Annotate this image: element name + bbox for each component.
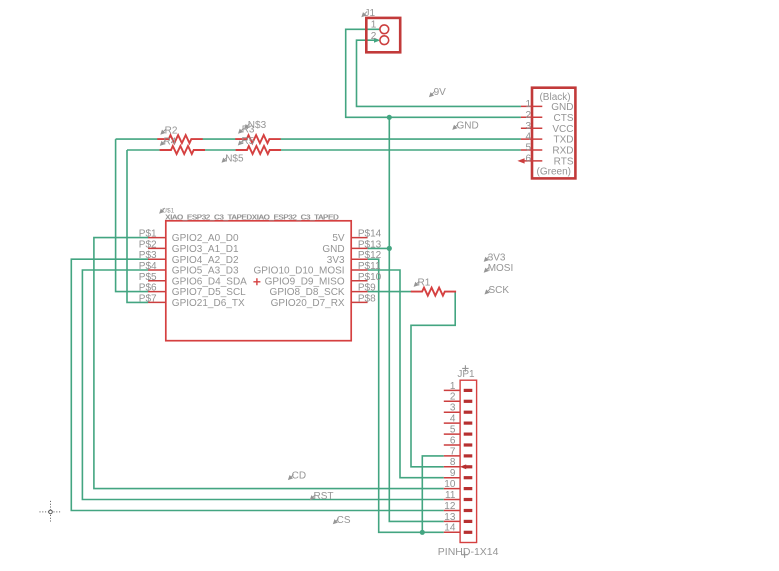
IC pin P$8 stub [351, 301, 367, 303]
svg-text:7: 7 [450, 446, 456, 457]
svg-text:GND: GND [551, 102, 573, 113]
IC U$1 XIAO ESP32 C3 box [166, 221, 351, 341]
svg-text:RXD: RXD [552, 146, 573, 157]
junction at pin14 row [420, 530, 425, 535]
net label SCK [485, 289, 490, 294]
svg-text:P$7: P$7 [139, 293, 157, 304]
UART pin 4 stub [521, 138, 542, 140]
svg-text:P$10: P$10 [358, 272, 382, 283]
svg-text:TXD: TXD [554, 135, 574, 146]
JP1 pin 10 pad [464, 487, 473, 490]
svg-text:RST: RST [314, 491, 334, 502]
svg-text:PINHD-1X14: PINHD-1X14 [438, 546, 499, 558]
UART pin 3 stub [521, 127, 542, 129]
svg-text:GND: GND [457, 120, 479, 131]
svg-text:R2: R2 [165, 125, 178, 136]
label J1 [362, 12, 367, 17]
IC pin P$11 stub [351, 269, 367, 271]
svg-text:GPIO2_A0_D0: GPIO2_A0_D0 [172, 233, 239, 244]
wire IC P$13 GND stub to vertical [368, 247, 390, 249]
svg-text:P$3: P$3 [139, 250, 157, 261]
svg-text:3V3: 3V3 [488, 252, 506, 263]
svg-text:N$5: N$5 [225, 154, 244, 165]
svg-text:P$4: P$4 [139, 261, 157, 272]
wire JP1 pin7 to pin14 row [422, 456, 444, 532]
J1 pin 1 circle [380, 25, 389, 34]
IC pin P$4 stub [148, 269, 166, 271]
svg-text:GPIO10_D10_MOSI: GPIO10_D10_MOSI [253, 266, 344, 277]
JP1 pin 7 stub [444, 455, 460, 457]
wire GND net vertical from CTS junction down to JP1 pin13 [389, 117, 444, 521]
svg-text:1: 1 [371, 20, 377, 31]
svg-text:N$3: N$3 [248, 120, 267, 131]
svg-text:P$8: P$8 [358, 293, 376, 304]
svg-text:GPIO20_D7_RX: GPIO20_D7_RX [271, 298, 345, 309]
IC pin P$13 stub [351, 247, 367, 249]
svg-text:13: 13 [444, 512, 456, 523]
JP1 pin 9 stub [444, 477, 460, 479]
svg-text:CTS: CTS [554, 113, 574, 124]
resistor R5 (label hidden) [239, 140, 244, 145]
svg-text:P$12: P$12 [358, 250, 382, 261]
svg-text:6: 6 [525, 154, 531, 165]
svg-text:GPIO8_D8_SCK: GPIO8_D8_SCK [270, 287, 345, 298]
svg-text:8: 8 [450, 457, 456, 468]
svg-text:R1: R1 [418, 278, 431, 289]
sheet origin crosshair [40, 501, 62, 523]
IC pin P$2 stub [148, 247, 166, 249]
IC pin P$14 stub [351, 237, 367, 239]
svg-text:4: 4 [450, 414, 456, 425]
JP1 pin 8 stub [444, 466, 460, 468]
JP1 pin 12 pad [464, 509, 473, 512]
svg-text:3V3: 3V3 [327, 255, 345, 266]
svg-text:10: 10 [444, 479, 456, 490]
svg-text:XIAO_ESP32_C3_TAPEDXIAO_ESP32_: XIAO_ESP32_C3_TAPEDXIAO_ESP32_C3_TAPED [166, 212, 340, 221]
svg-text:SCK: SCK [489, 285, 510, 296]
JP1 pin 3 stub [444, 411, 460, 413]
IC pin P$3 stub [148, 258, 166, 260]
junction on CTS row [387, 115, 392, 120]
wire vertical bottom resistor row to IC P$7 [127, 150, 148, 302]
svg-text:3: 3 [450, 403, 456, 414]
UART pin 1 stub [521, 105, 542, 107]
wire J1 pin1 to CTS row [346, 29, 521, 117]
JP1 pin 1 pad [464, 389, 473, 392]
JP1 pin 14 pad [464, 531, 473, 534]
svg-text:11: 11 [445, 490, 456, 501]
JP1 pin 4 stub [444, 422, 460, 424]
wire TXD row through R2 R3 [116, 138, 158, 140]
resistor R4 (label hidden) [161, 140, 166, 145]
net label RST [310, 495, 315, 500]
net label 3V3 [484, 256, 489, 261]
wire IC P$12 3V3 to JP1 pin14 [368, 259, 444, 532]
wire IC P$11 MOSI to JP1 pin9 [368, 270, 444, 478]
svg-text:3: 3 [525, 121, 531, 132]
IC pin P$12 stub [351, 258, 367, 260]
JP1 pin 11 stub [444, 499, 460, 501]
svg-text:(Black): (Black) [539, 92, 570, 103]
svg-text:9V: 9V [434, 87, 447, 98]
JP1 pin 11 pad [464, 498, 473, 501]
net label CS [334, 519, 339, 524]
JP1 pin 10 stub [444, 488, 460, 490]
J1 pin 2 circle [380, 36, 389, 45]
svg-text:1: 1 [525, 99, 531, 110]
label R3 [239, 128, 244, 133]
svg-text:2: 2 [450, 392, 456, 403]
wire IC P$4 to JP1 pin11 (RST net) [82, 270, 443, 500]
label PINHD-1X14 [461, 552, 467, 558]
svg-text:GPIO4_A2_D2: GPIO4_A2_D2 [172, 255, 239, 266]
svg-text:(Green): (Green) [537, 166, 571, 177]
svg-text:5: 5 [525, 143, 531, 154]
JP1 pin 5 stub [444, 433, 460, 435]
svg-text:P$13: P$13 [358, 239, 382, 250]
svg-text:P$2: P$2 [139, 239, 157, 250]
JP1 pin 4 pad [464, 422, 473, 425]
svg-text:GPIO5_A3_D3: GPIO5_A3_D3 [172, 266, 239, 277]
wire IC P$3 to JP1 pin12 (CS net) [71, 259, 444, 510]
svg-text:GND: GND [322, 244, 344, 255]
svg-text:P$9: P$9 [358, 283, 376, 294]
JP1 pin 7 pad [464, 454, 473, 457]
pin header JP1 box [460, 380, 477, 542]
IC pin P$7 stub [148, 301, 166, 303]
svg-text:2: 2 [371, 31, 377, 42]
svg-text:6: 6 [450, 435, 456, 446]
JP1 pin 3 pad [464, 411, 473, 414]
JP1 pin 5 pad [464, 433, 473, 436]
JP1 pin 6 stub [444, 444, 460, 446]
JP1 pin 2 pad [464, 400, 473, 403]
label JP1 [462, 365, 468, 371]
JP1 pin 6 pad [464, 443, 473, 446]
UART RTS arrowhead [517, 158, 524, 163]
IC pin P$6 stub [148, 291, 166, 293]
wire vertical resistor row to IC P$6 [116, 139, 148, 292]
JP1 pin 14 stub [444, 531, 460, 533]
svg-text:GPIO9_D9_MISO: GPIO9_D9_MISO [265, 276, 345, 287]
svg-text:P$1: P$1 [139, 229, 157, 240]
svg-text:MOSI: MOSI [488, 263, 514, 274]
JP1 pin 9 pad [464, 476, 473, 479]
IC pin P$5 stub [148, 280, 166, 282]
net label MOSI [484, 267, 489, 272]
JP1 pin 8 pad [464, 465, 473, 468]
svg-text:P$11: P$11 [358, 261, 381, 272]
label U$1 [160, 208, 165, 213]
svg-text:CS: CS [337, 515, 351, 526]
svg-text:JP1: JP1 [457, 369, 475, 380]
connector X1 (UART) box [532, 88, 575, 179]
svg-text:J1: J1 [365, 8, 376, 19]
IC pin P$9 stub [351, 291, 367, 293]
svg-text:5V: 5V [332, 233, 345, 244]
JP1 pin 1 stub [444, 389, 460, 391]
net label GND [453, 124, 458, 129]
wire arrowhead at J1 pin2 [374, 38, 380, 43]
resistor R1 [411, 288, 456, 296]
resistor R3 [235, 135, 280, 143]
UART pin 6 stub [521, 160, 542, 162]
svg-text:P$14: P$14 [358, 229, 382, 240]
svg-text:P$6: P$6 [139, 283, 157, 294]
label R2 [161, 129, 166, 134]
resistor R2 [157, 135, 202, 143]
wire RXD row through R4 R5 [127, 149, 160, 151]
svg-text:GPIO21_D6_TX: GPIO21_D6_TX [172, 298, 245, 309]
UART pin 5 stub [521, 149, 542, 151]
wire IC P$9 SCK to R1 [368, 291, 412, 293]
UART pin 2 stub [521, 116, 542, 118]
wire R1 to JP1 pin8 [411, 292, 455, 467]
svg-text:GPIO3_A1_D1: GPIO3_A1_D1 [172, 244, 239, 255]
svg-text:P$5: P$5 [139, 272, 157, 283]
svg-text:12: 12 [444, 501, 456, 512]
label R1 [414, 281, 419, 286]
net label 9V [430, 92, 435, 97]
svg-text:VCC: VCC [552, 124, 573, 135]
svg-text:GPIO7_D5_SCL: GPIO7_D5_SCL [172, 287, 246, 298]
label N$5 [222, 157, 227, 162]
JP1 pin 13 pad [464, 520, 473, 523]
svg-text:4: 4 [525, 132, 531, 143]
svg-text:9: 9 [450, 468, 456, 479]
net label CD [289, 474, 294, 479]
svg-text:1: 1 [450, 381, 456, 392]
svg-text:CD: CD [292, 470, 306, 481]
IC origin cross [253, 278, 260, 285]
svg-text:GPIO6_D4_SDA: GPIO6_D4_SDA [172, 276, 247, 287]
svg-text:5: 5 [450, 425, 456, 436]
IC pin P$1 stub [148, 237, 166, 239]
junction at IC GND row [387, 246, 392, 251]
IC pin P$10 stub [351, 280, 367, 282]
JP1 pin 8 arrowhead [460, 464, 466, 469]
connector J1 box [366, 18, 400, 52]
svg-text:R4: R4 [164, 137, 177, 148]
svg-text:14: 14 [444, 523, 456, 534]
label N$3 [245, 123, 250, 128]
JP1 pin 2 stub [444, 400, 460, 402]
wire J1 pin2 to GND pin row [357, 40, 521, 106]
JP1 pin 12 stub [444, 510, 460, 512]
JP1 pin 13 stub [444, 520, 460, 522]
svg-text:2: 2 [525, 110, 531, 121]
wire IC P$1 to JP1 pin10 (CD net) [94, 238, 444, 489]
